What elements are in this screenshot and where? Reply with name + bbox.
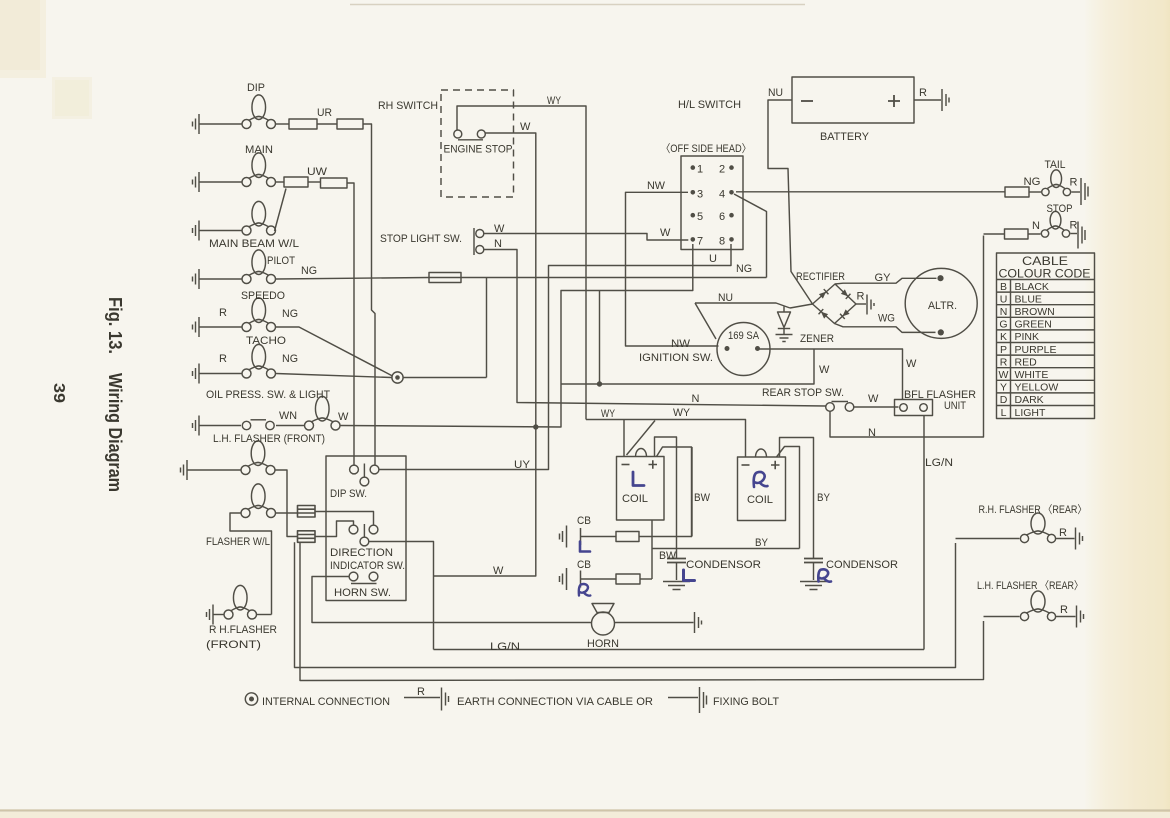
svg-text:WN: WN: [279, 410, 297, 422]
svg-text:NG: NG: [736, 263, 752, 275]
svg-text:N: N: [494, 238, 502, 250]
svg-text:ENGINE STOP: ENGINE STOP: [444, 144, 513, 156]
svg-text:L: L: [1001, 407, 1007, 419]
svg-text:W: W: [338, 411, 349, 423]
svg-text:N: N: [692, 393, 700, 405]
svg-text:1: 1: [697, 164, 703, 176]
svg-text:WY: WY: [601, 408, 616, 420]
svg-text:R: R: [219, 353, 227, 365]
svg-text:W: W: [493, 565, 504, 577]
svg-text:PURPLE: PURPLE: [1015, 344, 1057, 356]
svg-text:3: 3: [697, 188, 703, 200]
svg-text:COIL: COIL: [622, 493, 648, 505]
svg-text:NG: NG: [1024, 176, 1041, 188]
svg-text:W: W: [999, 369, 1009, 381]
svg-text:8: 8: [719, 235, 725, 247]
svg-text:7: 7: [697, 235, 703, 247]
svg-text:4: 4: [719, 188, 725, 200]
svg-text:STOP LIGHT SW.: STOP LIGHT SW.: [380, 233, 462, 245]
svg-text:UR: UR: [317, 107, 332, 119]
svg-text:RED: RED: [1015, 356, 1038, 368]
svg-text:R: R: [857, 291, 865, 303]
svg-text:REAR STOP SW.: REAR STOP SW.: [762, 387, 844, 399]
svg-text:D: D: [1000, 394, 1008, 406]
svg-text:CONDENSOR: CONDENSOR: [686, 559, 761, 571]
svg-text:ALTR.: ALTR.: [928, 300, 957, 312]
svg-text:R: R: [1059, 527, 1067, 539]
svg-text:U: U: [1000, 293, 1008, 305]
svg-text:UY: UY: [514, 459, 531, 471]
svg-text:G: G: [999, 319, 1007, 331]
svg-text:UW: UW: [307, 166, 328, 178]
svg-text:COLOUR CODE: COLOUR CODE: [999, 269, 1091, 281]
svg-text:N: N: [1032, 220, 1040, 232]
svg-text:R: R: [1070, 177, 1078, 189]
svg-text:NU: NU: [768, 87, 783, 99]
svg-text:BLUE: BLUE: [1015, 293, 1042, 305]
svg-text:INDICATOR SW.: INDICATOR SW.: [330, 560, 405, 572]
svg-text:BROWN: BROWN: [1015, 306, 1055, 318]
svg-text:NG: NG: [301, 265, 317, 277]
svg-text:BW: BW: [659, 550, 677, 562]
svg-text:GY: GY: [875, 272, 892, 284]
svg-text:NW: NW: [671, 338, 691, 350]
svg-text:CB: CB: [577, 515, 591, 527]
svg-text:R.H. FLASHER 〈REAR〉: R.H. FLASHER 〈REAR〉: [979, 503, 1087, 516]
svg-text:EARTH CONNECTION VIA CABLE: EARTH CONNECTION VIA CABLE OR: [457, 696, 653, 708]
svg-text:DIP: DIP: [247, 82, 265, 94]
svg-text:PINK: PINK: [1015, 331, 1040, 343]
svg-text:MAIN BEAM W/L: MAIN BEAM W/L: [209, 238, 299, 250]
svg-text:K: K: [1000, 331, 1007, 343]
svg-text:Fig. 13.: Fig. 13.: [105, 297, 125, 354]
svg-text:Y: Y: [1000, 382, 1007, 394]
svg-text:TACHO: TACHO: [246, 335, 286, 347]
svg-text:LG/N: LG/N: [925, 457, 953, 469]
svg-text:W: W: [660, 227, 671, 239]
svg-text:LIGHT: LIGHT: [1015, 407, 1047, 419]
svg-text:BLACK: BLACK: [1015, 281, 1049, 293]
svg-text:NU: NU: [718, 292, 733, 304]
svg-text:CB: CB: [577, 559, 591, 571]
svg-text:5: 5: [697, 211, 703, 223]
svg-text:IGNITION SW.: IGNITION SW.: [639, 352, 713, 364]
svg-text:Wiring Diagram: Wiring Diagram: [105, 373, 125, 492]
svg-text:WY: WY: [547, 95, 562, 107]
svg-text:OIL PRESS. SW. & LIGHT: OIL PRESS. SW. & LIGHT: [206, 389, 330, 401]
svg-text:GREEN: GREEN: [1015, 319, 1052, 331]
svg-text:PILOT: PILOT: [267, 255, 295, 267]
svg-text:L.H. FLASHER (FRONT): L.H. FLASHER (FRONT): [213, 433, 325, 445]
svg-text:WY: WY: [673, 407, 691, 419]
svg-text:R: R: [1070, 220, 1078, 232]
svg-text:SPEEDO: SPEEDO: [241, 290, 285, 302]
svg-text:W: W: [868, 393, 879, 405]
svg-text:(FRONT): (FRONT): [206, 639, 261, 651]
svg-text:MAIN: MAIN: [245, 144, 273, 156]
svg-text:R: R: [219, 307, 227, 319]
svg-text:FLASHER W/L: FLASHER W/L: [206, 536, 270, 548]
svg-text:FIXING BOLT: FIXING BOLT: [713, 696, 779, 708]
svg-text:WHITE: WHITE: [1015, 369, 1049, 381]
svg-text:BY: BY: [755, 537, 769, 549]
svg-text:ZENER: ZENER: [800, 333, 834, 345]
svg-text:L.H. FLASHER 〈REAR〉: L.H. FLASHER 〈REAR〉: [977, 579, 1083, 592]
svg-text:39: 39: [50, 383, 67, 403]
svg-text:U: U: [709, 253, 717, 265]
svg-text:N: N: [1000, 306, 1008, 318]
svg-text:TAIL: TAIL: [1045, 159, 1066, 171]
svg-text:R: R: [417, 686, 425, 698]
svg-text:R H.FLASHER: R H.FLASHER: [209, 624, 277, 636]
svg-text:BW: BW: [694, 492, 711, 504]
svg-text:H/L SWITCH: H/L SWITCH: [678, 99, 741, 111]
svg-text:NG: NG: [282, 308, 298, 320]
svg-text:W: W: [819, 364, 830, 376]
svg-text:CONDENSOR: CONDENSOR: [826, 559, 898, 571]
svg-text:YELLOW: YELLOW: [1015, 382, 1059, 394]
svg-text:WG: WG: [878, 313, 895, 325]
svg-text:RECTIFIER: RECTIFIER: [796, 271, 845, 283]
svg-text:INTERNAL CONNECTION: INTERNAL CONNECTION: [262, 696, 390, 708]
svg-text:RH SWITCH: RH SWITCH: [378, 100, 438, 112]
svg-text:〈OFF SIDE HEAD〉: 〈OFF SIDE HEAD〉: [661, 142, 751, 155]
svg-text:169 SA: 169 SA: [728, 330, 760, 342]
svg-text:NG: NG: [282, 353, 298, 365]
svg-text:W: W: [494, 223, 505, 235]
svg-text:DIP SW.: DIP SW.: [330, 488, 367, 500]
svg-text:6: 6: [719, 211, 725, 223]
svg-text:W: W: [520, 121, 531, 133]
svg-text:B: B: [1000, 281, 1007, 293]
svg-text:STOP: STOP: [1047, 203, 1073, 215]
svg-text:BY: BY: [817, 492, 831, 504]
svg-text:LG/N: LG/N: [490, 641, 520, 653]
svg-text:CABLE: CABLE: [1022, 256, 1068, 268]
svg-text:R: R: [919, 87, 927, 99]
svg-text:HORN SW.: HORN SW.: [334, 587, 391, 599]
svg-text:R: R: [1060, 604, 1068, 616]
svg-text:DIRECTION: DIRECTION: [330, 547, 393, 559]
svg-text:NW: NW: [647, 180, 666, 192]
svg-text:N: N: [868, 427, 876, 439]
svg-text:BATTERY: BATTERY: [820, 131, 870, 143]
svg-text:COIL: COIL: [747, 494, 773, 506]
svg-text:W: W: [906, 358, 917, 370]
svg-text:2: 2: [719, 164, 725, 176]
svg-text:DARK: DARK: [1015, 394, 1044, 406]
svg-text:UNIT: UNIT: [944, 400, 966, 412]
svg-text:HORN: HORN: [587, 638, 619, 650]
svg-text:P: P: [1000, 344, 1007, 356]
svg-text:R: R: [1000, 356, 1008, 368]
